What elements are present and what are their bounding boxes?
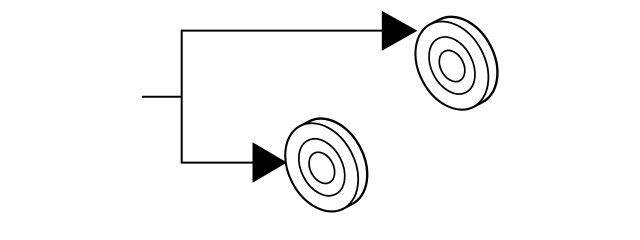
- face: [401, 9, 503, 122]
- wire: splitter branches: [182, 31, 383, 163]
- arrowhead top: [382, 11, 418, 51]
- middle ring: [420, 29, 484, 102]
- disc top: [401, 4, 512, 122]
- silhouette with rim: [401, 4, 512, 122]
- wire: input stub: [142, 96, 182, 98]
- hole: [434, 46, 470, 86]
- disc bottom: [271, 106, 382, 224]
- arrowhead bottom: [253, 142, 288, 183]
